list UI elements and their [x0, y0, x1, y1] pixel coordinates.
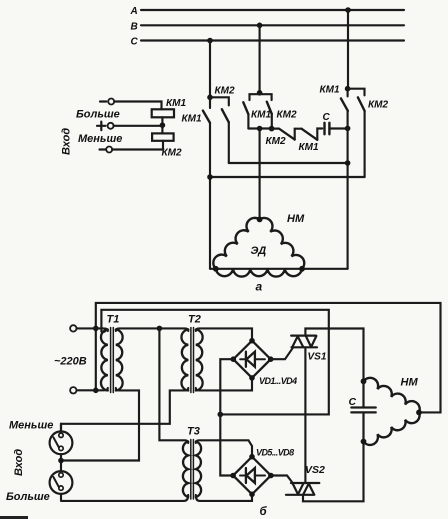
- contact KM1 blade (right pair): [341, 98, 348, 111]
- node T1T2 drop to T3: [159, 328, 188, 443]
- wire bracket left pair: [210, 97, 229, 105]
- node bridge1 right: [268, 356, 274, 362]
- coil KM2: [152, 133, 174, 140]
- wire VS1 to VS2: [304, 347, 306, 483]
- node capacitor A branch: [345, 126, 351, 132]
- wire right pair KM1 down: [347, 111, 349, 269]
- node B-drop cluster: [257, 90, 263, 96]
- svg-text:T1: T1: [107, 313, 120, 325]
- svg-text:КМ2: КМ2: [277, 109, 297, 120]
- svg-text:НМ: НМ: [401, 376, 419, 388]
- phase line C: [131, 37, 405, 48]
- wire left pair KM1 down: [209, 123, 211, 269]
- wire 220V top to T1: [77, 328, 108, 331]
- terminal circle 220V top: [70, 325, 76, 331]
- svg-text:A: A: [130, 6, 138, 17]
- transformer T3 secondary winding: [196, 442, 201, 498]
- node bridge2 left: [230, 473, 236, 479]
- phase line B: [131, 22, 405, 33]
- svg-text:ЭД: ЭД: [251, 245, 267, 257]
- wire outer frame (bottom circuit): [96, 303, 441, 413]
- node bridge2 right: [268, 473, 274, 479]
- wire middle down to motor: [259, 129, 261, 220]
- wire capacitor to A branch: [329, 127, 347, 129]
- thyristor VS2: [286, 483, 319, 495]
- setpoint rheostat Bolshe: [50, 471, 73, 494]
- wire top terminal to coil KM1: [114, 102, 161, 110]
- transformer T1 core: [111, 328, 114, 393]
- winding HM (bottom circuit): [364, 378, 420, 413]
- wire T2 secondary top to bridge1: [196, 328, 252, 340]
- wire bottom terminal to coil KM2: [112, 141, 163, 150]
- node motor top: [257, 217, 263, 223]
- svg-text:VD5...VD8: VD5...VD8: [256, 447, 294, 457]
- svg-text:КМ1: КМ1: [299, 142, 319, 153]
- node HM bottom: [361, 439, 367, 445]
- node HM top: [361, 378, 367, 384]
- capacitor C (bottom circuit): [351, 381, 376, 441]
- svg-text:T2: T2: [188, 313, 201, 325]
- node middle bottom: [257, 126, 263, 132]
- wire gate VS1: [271, 347, 294, 359]
- node bridge1 bottom: [249, 375, 255, 381]
- wire gate VS2: [271, 476, 293, 484]
- terminal minus bottom: [100, 148, 106, 150]
- svg-text:КМ1: КМ1: [182, 114, 202, 125]
- phase line A: [130, 6, 405, 17]
- svg-text:Меньше: Меньше: [9, 419, 53, 431]
- node motor bottom-right: [299, 266, 305, 272]
- wire C drop: [209, 41, 211, 98]
- svg-text:КМ2: КМ2: [266, 136, 286, 147]
- node A-drop pair: [345, 86, 351, 92]
- svg-text:КМ1: КМ1: [251, 109, 271, 120]
- svg-text:НМ: НМ: [287, 213, 305, 225]
- contact KM2 blade (left pair): [222, 109, 229, 122]
- wire T3 secondary bottom to bridge2 bottom: [196, 494, 252, 501]
- wire A drop: [347, 10, 349, 89]
- svg-text:КМ2: КМ2: [215, 86, 235, 97]
- node outer frame top terminal: [93, 326, 99, 332]
- wire middle right leg: [271, 114, 273, 129]
- wire stub right pair: [347, 89, 349, 97]
- coil KM1: [152, 109, 174, 117]
- svg-text:б: б: [260, 506, 268, 518]
- wire VS2 cathode bottom: [303, 442, 364, 502]
- transformer T3 core: [191, 440, 194, 500]
- wire left pair KM2 down to bus1: [228, 122, 230, 163]
- terminal circle 220V bottom: [70, 387, 76, 393]
- wire 220V bottom to T1: [77, 388, 108, 390]
- node bridge2 bottom: [249, 492, 255, 498]
- terminal circle middle: [108, 123, 114, 129]
- node on B: [257, 23, 263, 29]
- svg-text:C: C: [131, 37, 139, 48]
- contact KM1 blade (left pair): [203, 111, 210, 123]
- transformer T1 secondary winding: [116, 330, 123, 391]
- svg-text:КМ1: КМ1: [166, 98, 186, 109]
- node on A: [345, 7, 351, 13]
- svg-text:VD1...VD4: VD1...VD4: [259, 376, 297, 386]
- wire T1 secondary top to T2 primary top: [116, 328, 189, 331]
- node on C: [207, 38, 213, 44]
- terminal minus top: [100, 100, 106, 102]
- node bus left end: [218, 412, 224, 418]
- wire T3 secondary top to bridge2 top: [196, 440, 252, 456]
- contact KM1 blade (middle): [243, 102, 248, 114]
- svg-text:Больше: Больше: [76, 109, 120, 121]
- terminal plus middle: [97, 122, 106, 131]
- svg-text:Меньше: Меньше: [78, 133, 122, 145]
- node bridge1 top: [249, 338, 255, 344]
- wire series step1: [295, 129, 302, 140]
- wire middle left leg: [247, 114, 249, 128]
- transformer T1 primary winding: [101, 330, 108, 391]
- node series start: [269, 126, 275, 132]
- wire T2 primary bottom down-left: [61, 388, 188, 431]
- svg-text:а: а: [256, 280, 263, 294]
- motor bottom rail: [210, 268, 348, 270]
- node between circles: [58, 458, 64, 464]
- svg-text:Вход: Вход: [61, 128, 73, 155]
- transformer T2 primary winding: [181, 330, 188, 391]
- wire bridge1 left to bridge2 left: [220, 359, 233, 475]
- wire middle bottom bracket: [248, 127, 271, 129]
- scan smudge bottom-left: [0, 516, 28, 519]
- capacitor C (top circuit): [325, 123, 330, 135]
- wire T3 primary bottom to Bolshe circle: [61, 494, 188, 501]
- terminal circle bottom: [106, 147, 112, 153]
- svg-text:Вход: Вход: [13, 449, 25, 476]
- transformer T2 core: [191, 328, 194, 393]
- svg-text:VS1: VS1: [308, 351, 327, 362]
- contact KM2 series blade: [272, 129, 295, 140]
- wire T2 secondary bottom to bridge1 bottom: [196, 378, 252, 391]
- svg-text:VS2: VS2: [305, 464, 325, 476]
- svg-text:Больше: Больше: [6, 491, 50, 503]
- contact KM2 blade (middle): [267, 102, 272, 114]
- wire VS1 anode top: [305, 329, 363, 382]
- svg-text:~220В: ~220В: [54, 356, 87, 368]
- bus1 wire: [229, 162, 348, 164]
- contact KM2 blade (right pair): [358, 97, 365, 111]
- svg-text:С: С: [323, 112, 331, 123]
- wire right pair KM2 down: [364, 111, 366, 177]
- svg-text:КМ1: КМ1: [320, 84, 340, 95]
- wire B drop: [259, 25, 261, 93]
- contact KM1 series blade: [302, 129, 318, 140]
- node bus1: [345, 160, 351, 166]
- thyristor VS1: [291, 336, 317, 348]
- wire series step2: [317, 129, 322, 140]
- motor ED winding cloud: [213, 218, 304, 277]
- wire bracket right pair: [348, 89, 365, 96]
- bridge rectifier VD1...VD4: [233, 341, 270, 378]
- terminal circle top: [108, 99, 114, 105]
- node C-drop contact pair: [207, 95, 213, 101]
- setpoint rheostat Menshe: [50, 431, 73, 454]
- transformer T3 primary winding: [183, 442, 188, 498]
- wire coil KM1 to coil KM2: [161, 117, 163, 133]
- wire stub left pair: [209, 97, 211, 108]
- wire middle terminal: [114, 125, 163, 127]
- node between coils: [160, 122, 166, 128]
- node bridge1 left: [231, 356, 237, 362]
- bus2 wire: [210, 176, 365, 178]
- wire between setpoint circles: [60, 454, 62, 471]
- transformer T2 secondary winding: [196, 330, 203, 391]
- node HM right: [416, 410, 422, 416]
- svg-text:С: С: [349, 396, 357, 408]
- svg-text:КМ2: КМ2: [368, 99, 388, 110]
- node bridge2 top: [249, 454, 255, 460]
- node motor bottom-left: [213, 266, 219, 272]
- node outer frame bottom terminal: [93, 388, 99, 394]
- svg-text:B: B: [131, 22, 138, 33]
- node T1-T2 junction: [157, 326, 163, 332]
- bridge rectifier VD5...VD8: [233, 457, 271, 495]
- node bus2: [207, 174, 213, 180]
- wire inner frame: [101, 310, 328, 415]
- wire T1 secondary bottom to setpoint node: [61, 388, 139, 461]
- svg-text:T3: T3: [187, 425, 200, 437]
- wire bracket middle cluster: [250, 94, 272, 100]
- wire into Menshe top: [60, 424, 62, 432]
- svg-text:КМ2: КМ2: [162, 148, 182, 159]
